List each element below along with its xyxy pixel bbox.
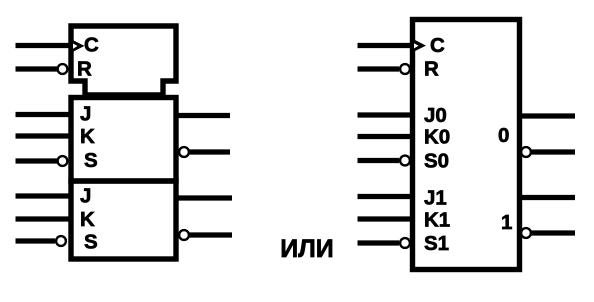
wire J input section 1 (left figure) [16, 193, 72, 198]
pin label J section 0 (left figure) [80, 103, 91, 126]
pin label J1 (right figure) [424, 187, 447, 210]
wire S input section 0 (left figure) [16, 158, 58, 163]
svg-text:K: K [80, 208, 95, 231]
svg-text:J: J [80, 103, 91, 126]
pin label S0 (right figure) [424, 150, 449, 173]
pin R inversion bubble (left figure) [58, 64, 68, 74]
pin label R (left figure) [77, 58, 92, 81]
wire J1 input (right figure) [358, 194, 413, 199]
svg-text:S: S [84, 231, 98, 254]
wire K0 input (right figure) [358, 134, 413, 139]
pin S0 inversion bubble (right figure) [400, 156, 410, 166]
wire S input section 1 (left figure) [16, 238, 56, 243]
output group label 0 (right figure) [498, 124, 509, 147]
svg-text:R: R [77, 58, 92, 81]
wire Q1 output (right figure) [520, 195, 576, 200]
pin label R (right figure) [424, 58, 439, 81]
svg-text:C: C [84, 34, 99, 57]
pin Q-bar inversion bubble section 0 (left figure) [179, 147, 189, 157]
pin Q-bar inversion bubble section 1 (left figure) [179, 230, 189, 240]
wire J0 input (right figure) [358, 112, 413, 117]
flip-flop U1 section 1 outline (J K S block) [71, 181, 176, 259]
flip-flop U1 control section outline (C/R block) [71, 26, 176, 95]
flip-flop U2 outline (combined dual JK block, right figure) [413, 20, 520, 270]
pin S1 inversion bubble (right figure) [400, 238, 410, 248]
pin label C (left figure) [84, 34, 99, 57]
svg-text:S1: S1 [424, 232, 449, 255]
pin R inversion bubble (right figure) [400, 64, 410, 74]
wire Q1-bar output (right figure) [532, 230, 576, 235]
pin label K section 0 (left figure) [80, 125, 95, 148]
wire J input section 0 (left figure) [16, 112, 72, 117]
wire K input section 1 (left figure) [16, 216, 72, 221]
svg-text:1: 1 [501, 211, 512, 234]
wire Q0-bar output (right figure) [532, 149, 576, 154]
output group label 1 (right figure) [501, 211, 512, 234]
pin label J0 (right figure) [424, 104, 447, 127]
wire S1 input (right figure) [358, 240, 400, 245]
wire C input (right figure) [358, 43, 413, 48]
pin label S section 0 (left figure) [84, 149, 98, 172]
pin Q0-bar inversion bubble (right figure) [521, 147, 531, 157]
pin C dynamic-input triangle (right figure) [412, 38, 427, 53]
svg-text:S0: S0 [424, 150, 449, 173]
svg-text:ИЛИ: ИЛИ [280, 235, 333, 263]
pin label K0 (right figure) [424, 126, 450, 149]
svg-text:J: J [80, 185, 91, 208]
svg-text:J1: J1 [424, 187, 447, 210]
pin label K section 1 (left figure) [80, 208, 95, 231]
svg-text:J0: J0 [424, 104, 447, 127]
wire R input (right figure) [358, 66, 400, 71]
flip-flop U1 section 0 outline (J K S block) [71, 98, 176, 182]
svg-text:C: C [430, 34, 445, 57]
svg-text:0: 0 [498, 124, 509, 147]
text label ИЛИ (Russian "OR") [280, 235, 333, 263]
wire Q-bar output section 0 (left figure) [189, 149, 230, 154]
svg-text:K1: K1 [424, 209, 450, 232]
wire R input (left figure) [16, 66, 58, 71]
svg-text:K: K [80, 125, 95, 148]
wire Q0 output (right figure) [520, 113, 576, 118]
pin label S section 1 (left figure) [84, 231, 98, 254]
wire K1 input (right figure) [358, 216, 413, 221]
wire Q output section 0 (left figure) [176, 113, 230, 118]
pin label S1 (right figure) [424, 232, 449, 255]
svg-text:R: R [424, 58, 439, 81]
pin C dynamic-input triangle (left figure) [70, 39, 85, 53]
wire Q output section 1 (left figure) [176, 195, 232, 200]
pin label K1 (right figure) [424, 209, 450, 232]
pin label C (right figure) [430, 34, 445, 57]
wire K input section 0 (left figure) [16, 133, 72, 138]
wire C input (left figure) [16, 43, 72, 48]
pin S inversion bubble section 1 (left figure) [56, 236, 66, 246]
pin S inversion bubble section 0 (left figure) [58, 156, 68, 166]
pin label J section 1 (left figure) [80, 185, 91, 208]
pin Q1-bar inversion bubble (right figure) [521, 228, 531, 238]
wire S0 input (right figure) [358, 158, 400, 163]
svg-text:S: S [84, 149, 98, 172]
wire Q-bar output section 1 (left figure) [189, 232, 232, 237]
svg-text:K0: K0 [424, 126, 450, 149]
